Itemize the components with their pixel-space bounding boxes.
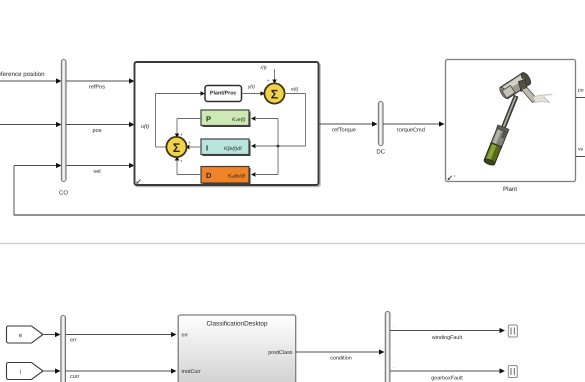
controller subsystem box (135, 62, 321, 187)
svg-text:Σ: Σ (271, 88, 279, 102)
wire gearboxFault (390, 364, 505, 382)
wire tag i to bottom bus (43, 368, 61, 373)
svg-text:vel: vel (93, 168, 100, 175)
svg-text:i: i (20, 369, 21, 376)
robot shoulder cylinder (498, 71, 532, 100)
svg-text:torqueCmd: torqueCmd (397, 127, 425, 134)
bus bar condition (385, 312, 390, 382)
wire windingFault (390, 323, 505, 341)
op sum block top (sigma) (264, 83, 284, 103)
svg-text:err: err (70, 338, 77, 344)
svg-text:predClass: predClass (268, 350, 293, 356)
wire r(t) reference into top sum (261, 65, 277, 84)
svg-text:Reference position: Reference position (0, 71, 45, 78)
wire I output into left sum (185, 140, 201, 149)
svg-text:refTorque: refTorque (332, 127, 356, 134)
block I integral (201, 139, 251, 156)
svg-text:CO: CO (59, 190, 68, 197)
wire branch into I block (251, 144, 279, 148)
svg-text:P: P (206, 115, 211, 124)
bus bar CO (59, 60, 68, 197)
svg-text:+: + (180, 159, 183, 164)
op sum block left (sigma) (166, 137, 186, 157)
svg-text:I: I (206, 144, 208, 153)
svg-text:.: . (393, 323, 394, 328)
display block windingFault (508, 325, 517, 337)
svg-text:r(t): r(t) (261, 65, 268, 71)
wire refPos bus-to-controller (66, 78, 135, 90)
svg-text:Plant/Proc: Plant/Proc (210, 91, 237, 97)
svg-text:D: D (206, 171, 212, 180)
svg-text:Kₔde/dt: Kₔde/dt (228, 174, 246, 180)
svg-text:po: po (578, 88, 584, 94)
wire pos bus-to-controller (66, 122, 135, 134)
svg-text:ve: ve (578, 147, 584, 153)
svg-text:err: err (182, 333, 189, 339)
svg-text:u(t): u(t) (141, 124, 149, 130)
robot elbow piece (519, 80, 528, 92)
wire branch up into P block (251, 116, 278, 146)
svg-text:+: + (267, 78, 270, 83)
svg-text:windingFault: windingFault (431, 335, 463, 341)
wire err to ClassificationDesktop (66, 332, 177, 344)
svg-text:refPos: refPos (89, 84, 105, 91)
robot shoulder flange (502, 85, 515, 98)
wire branch down into D block (251, 146, 278, 177)
svg-text:+: + (188, 140, 191, 145)
feedback wire from plant back to vel input (14, 163, 585, 216)
plant block (446, 60, 576, 194)
block D derivative (201, 167, 251, 185)
wire D output into left sum (175, 156, 201, 175)
svg-text:pos: pos (92, 128, 101, 134)
tag block e (err goto tag) (7, 326, 44, 343)
svg-text:Plant: Plant (503, 186, 517, 193)
wire pos into bus CO (0, 122, 62, 127)
wire e(t): top sum down right side to P I D (278, 87, 306, 147)
robot forearm (522, 88, 538, 103)
robot lower assembly (base, collar, link rod) (483, 94, 522, 167)
wire y(t): Plant/Process to top sum (242, 84, 266, 96)
robot arm graphic (483, 71, 553, 166)
svg-text:DC: DC (376, 149, 385, 156)
svg-text:Kₚe(t): Kₚe(t) (232, 117, 246, 123)
svg-text:gearboxFault: gearboxFault (431, 376, 463, 382)
wire refTorque controller-to-DC (319, 121, 378, 133)
section divider line (0, 243, 585, 245)
robot link rod (498, 95, 518, 136)
display block gearboxFault (508, 366, 517, 378)
plant output wire pos (576, 88, 585, 98)
block Plant/Process (205, 86, 242, 102)
wire curr to ClassificationDesktop (66, 368, 177, 380)
svg-text:e(t): e(t) (291, 87, 299, 93)
bus bar DC (376, 102, 385, 156)
wire refPos into bus CO (0, 78, 62, 83)
svg-text:.: . (393, 364, 394, 369)
robot collar joint (490, 125, 509, 149)
svg-text:y(t): y(t) (247, 84, 255, 90)
svg-text:Σ: Σ (173, 141, 181, 155)
wire vel bus-to-controller (66, 163, 135, 175)
robot green base cylinder (483, 143, 501, 167)
svg-text:curr: curr (70, 374, 79, 380)
svg-text:motCurr: motCurr (182, 369, 202, 375)
svg-text:+: + (180, 132, 183, 137)
wire P output into left sum (175, 119, 201, 139)
wire condition predClass-to-bus (296, 349, 385, 361)
wire u(t): left sum up to Plant/Process (141, 91, 205, 147)
svg-text:condition: condition (330, 356, 352, 362)
wire tag e to bottom bus (43, 332, 61, 337)
svg-text:ClassificationDesktop: ClassificationDesktop (206, 321, 268, 328)
plant output wire vel (576, 147, 585, 157)
tag block i (curr goto tag) (7, 363, 44, 380)
bus bar bottom left (61, 316, 66, 382)
block ClassificationDesktop (178, 315, 296, 382)
robot gripper fork (533, 95, 553, 103)
block P proportional (201, 110, 251, 127)
svg-text:Kᵢ∫e(t)dt: Kᵢ∫e(t)dt (224, 146, 242, 152)
wire torqueCmd DC-to-plant (383, 121, 445, 133)
signal label Reference position (0, 71, 45, 78)
